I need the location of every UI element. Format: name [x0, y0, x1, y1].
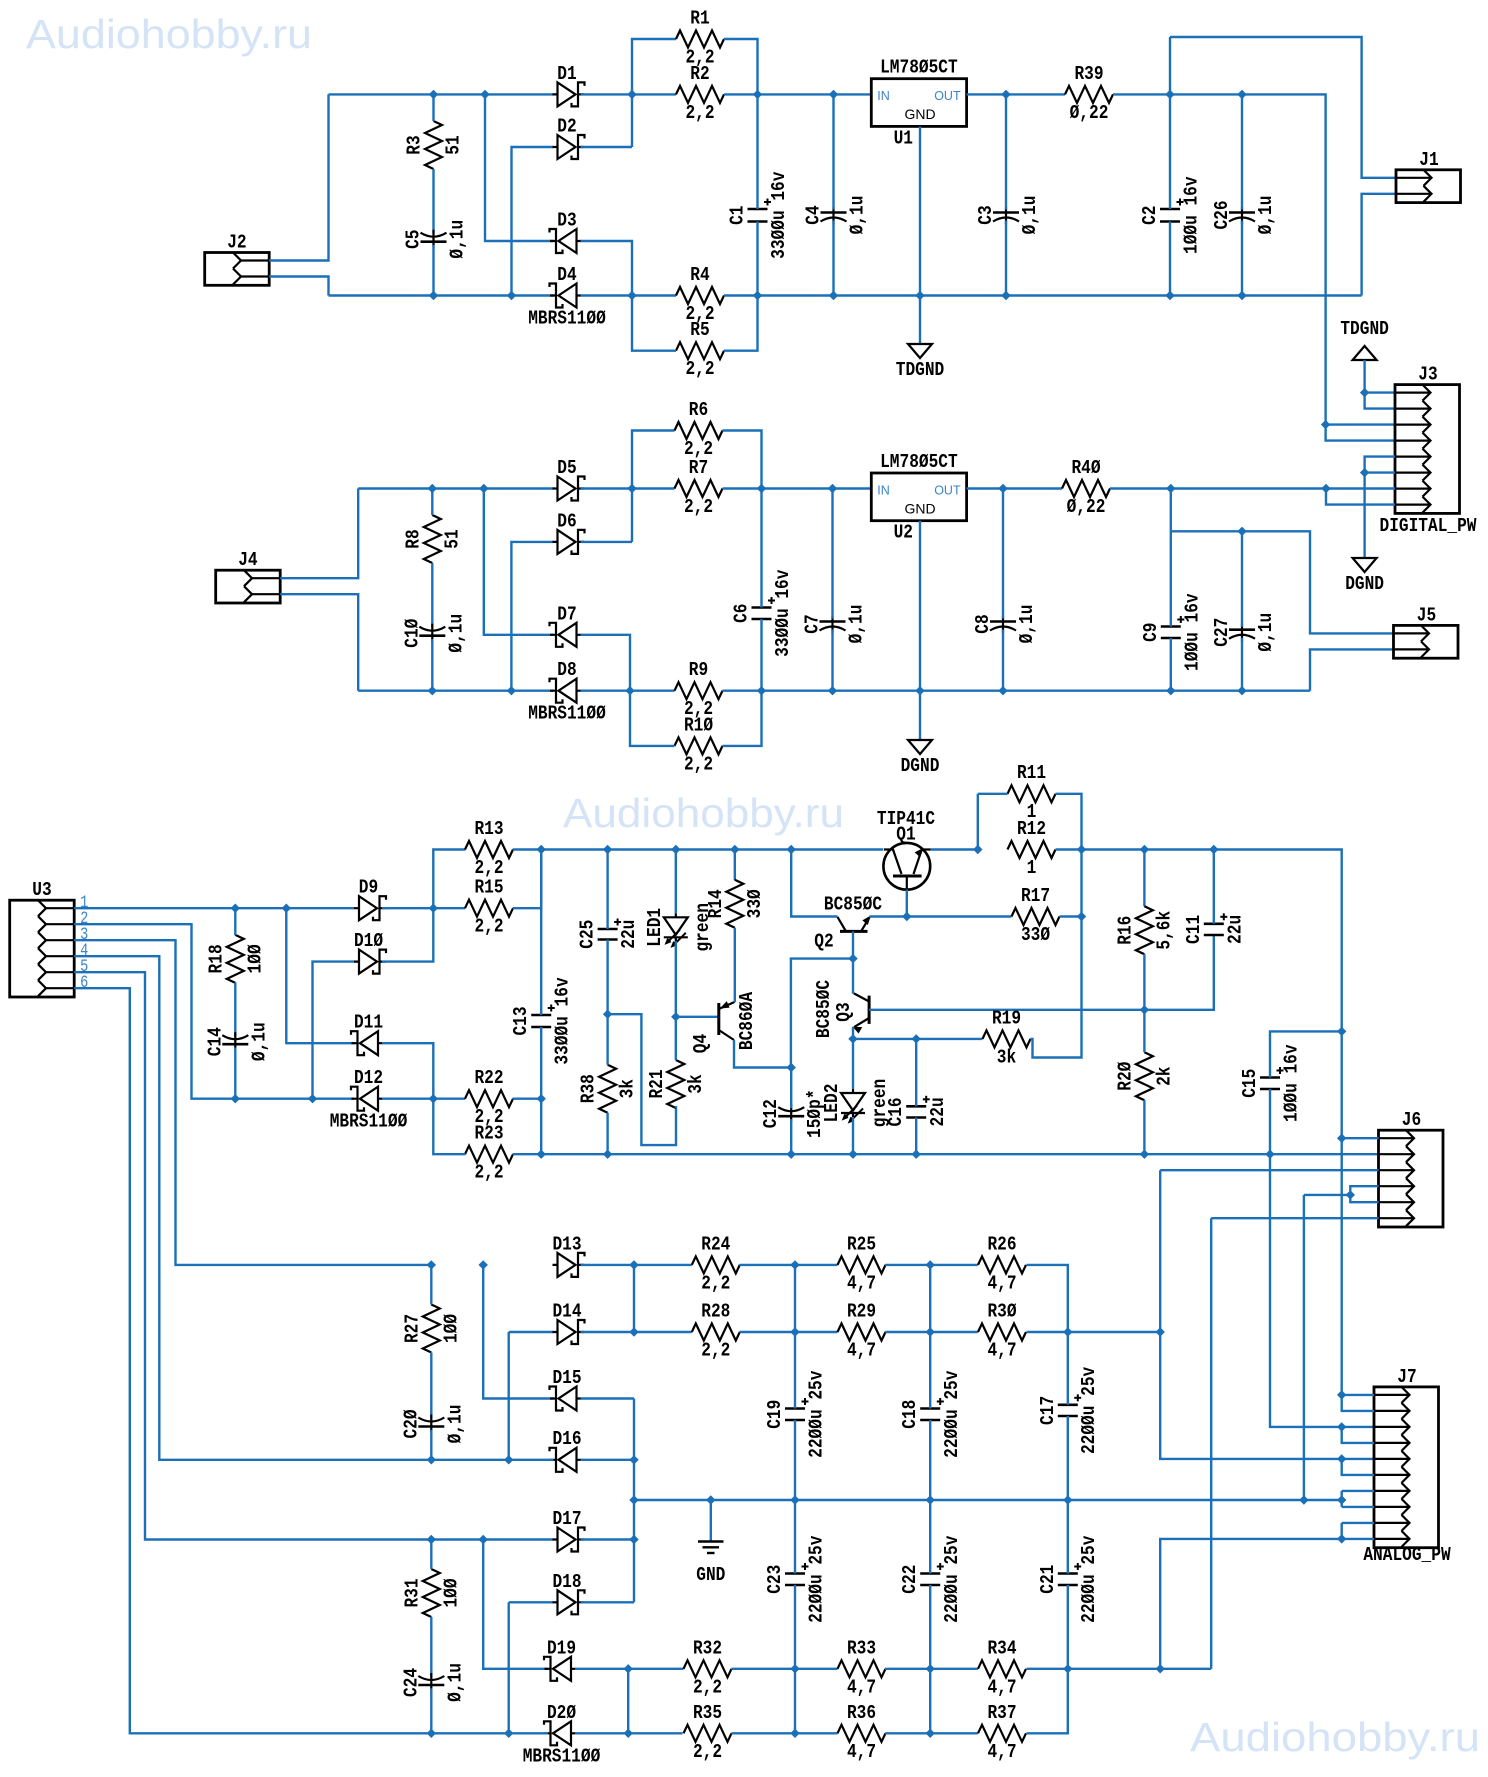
- wire C17 col top: [1067, 1332, 1069, 1405]
- svg-text:D13: D13: [552, 1233, 581, 1255]
- svg-text:Q4: Q4: [690, 1034, 712, 1053]
- resistor R12: [1008, 818, 1056, 879]
- resistor R17: [1012, 885, 1060, 946]
- transistor Q2: [814, 894, 882, 953]
- svg-text:22u: 22u: [1224, 915, 1246, 944]
- svg-text:C11: C11: [1183, 915, 1205, 944]
- svg-text:C24: C24: [400, 1668, 422, 1697]
- node AC3 junction 1: [428, 485, 436, 493]
- transistor Q4: [690, 991, 758, 1053]
- wire U1 GND pin: [919, 126, 921, 295]
- resistor R39: [1065, 63, 1113, 124]
- svg-text:J1: J1: [1419, 149, 1438, 171]
- wire C13 bottom: [540, 1027, 542, 1154]
- node center taps junction 2: [630, 1496, 638, 1504]
- diode D18: [552, 1571, 584, 1615]
- node GND2 rail junction 1: [758, 687, 766, 695]
- node C19 x A2: [791, 1328, 799, 1336]
- wire C13 top: [540, 850, 542, 1016]
- wire Q3 base to C11: [1144, 935, 1213, 1010]
- wire C21 col top: [1067, 1500, 1069, 1574]
- wire C10 bottom: [431, 639, 433, 691]
- diode D19: [544, 1637, 576, 1681]
- svg-text:1ØØu 16v: 1ØØu 16v: [1181, 593, 1203, 671]
- resistor R5: [676, 319, 724, 380]
- wire AC3 to D7: [484, 489, 554, 635]
- svg-text:C27: C27: [1211, 618, 1233, 647]
- node AC2 junction 2: [508, 292, 516, 300]
- capacitor C23: [764, 1535, 828, 1623]
- node AC1 junction 2: [481, 90, 489, 98]
- svg-text:2,2: 2,2: [474, 857, 503, 879]
- wire R1 right to rail: [724, 39, 758, 94]
- svg-text:C21: C21: [1037, 1565, 1059, 1594]
- svg-text:2,2: 2,2: [685, 102, 714, 124]
- svg-text:R31: R31: [401, 1578, 423, 1607]
- node GND taps junction 6: [1338, 1496, 1346, 1504]
- svg-text:4,7: 4,7: [987, 1272, 1016, 1294]
- svg-text:TDGND: TDGND: [896, 359, 945, 381]
- diode D11: [351, 1012, 383, 1056]
- wire J6 pin3 drop: [1160, 1170, 1374, 1459]
- svg-text:D2: D2: [557, 116, 576, 138]
- wire R3 to C5: [432, 169, 434, 234]
- wire GND jog to rail: [1304, 1194, 1350, 1196]
- wire U3 pin6: [74, 988, 431, 1733]
- capacitor C1: [727, 171, 791, 259]
- wire C3 top: [1005, 94, 1007, 209]
- wire R8 to C10: [431, 563, 433, 628]
- diode D9: [354, 877, 386, 921]
- svg-text:DGND: DGND: [901, 755, 940, 777]
- wire C15 top jog: [1270, 1031, 1342, 1077]
- wire AC4 to D6: [511, 542, 553, 691]
- wire Q3 emitter: [852, 1027, 854, 1039]
- svg-text:D1: D1: [557, 63, 576, 85]
- node D13-D14: [630, 1261, 638, 1269]
- resistor R37: [978, 1702, 1026, 1763]
- wire TVCC to J1 pin1: [1170, 37, 1396, 178]
- wire AC3 top rail: [358, 487, 553, 489]
- wire D9 cathode: [382, 907, 465, 909]
- wire D6 cathode to riser: [581, 541, 633, 543]
- wire C25 bottom: [606, 940, 608, 1015]
- wire Q3 base row: [869, 1009, 1144, 1011]
- wire R11 riser: [977, 794, 979, 850]
- node J3 pin1: [1361, 389, 1369, 397]
- svg-text:MBRS11ØØ: MBRS11ØØ: [528, 703, 606, 725]
- voltage regulator U2: [871, 451, 966, 544]
- wire Q3E to LED2: [852, 1039, 854, 1089]
- node AC4 junction 1: [428, 687, 436, 695]
- svg-text:Ø,1u: Ø,1u: [444, 1663, 466, 1702]
- svg-text:R29: R29: [847, 1301, 876, 1323]
- svg-text:R2Ø: R2Ø: [1114, 1062, 1136, 1091]
- capacitor C11: [1183, 913, 1247, 944]
- capacitor C15: [1239, 1044, 1303, 1122]
- wire J3 pin2: [1365, 393, 1395, 409]
- node pin1 taps junction 2: [282, 904, 290, 912]
- node pin1 taps junction 1: [231, 904, 239, 912]
- svg-text:C16: C16: [885, 1097, 907, 1126]
- svg-text:22u: 22u: [927, 1097, 949, 1126]
- wire pin1 to D11: [286, 908, 355, 1043]
- resistor R10: [675, 714, 723, 775]
- transistor Q1: [877, 808, 935, 890]
- node GND taps junction 5: [1300, 1496, 1308, 1504]
- wire J7 pin10: [1342, 1538, 1374, 1540]
- node J3 pin6: [1361, 469, 1369, 477]
- svg-text:22u: 22u: [618, 920, 640, 949]
- wire C1 top: [756, 94, 758, 209]
- svg-text:5,6k: 5,6k: [1153, 911, 1175, 950]
- svg-text:R32: R32: [693, 1637, 722, 1659]
- wire rail right of Q1: [931, 848, 978, 850]
- diode D20: [523, 1702, 601, 1768]
- svg-text:22ØØu 25v: 22ØØu 25v: [806, 1535, 828, 1623]
- svg-text:3k: 3k: [617, 1079, 639, 1098]
- node R12 right: [1078, 846, 1086, 854]
- svg-text:Audiohobby.ru: Audiohobby.ru: [26, 11, 312, 57]
- wire bottom rail mid: [724, 294, 1362, 296]
- wire R28 to R29: [740, 1331, 838, 1333]
- svg-text:C15: C15: [1239, 1069, 1261, 1098]
- wire -VA to J7 9/10: [1160, 1539, 1342, 1669]
- wire R36-R37: [885, 1732, 978, 1734]
- svg-text:C7: C7: [802, 614, 824, 633]
- svg-text:J3: J3: [1418, 364, 1437, 386]
- wire R17 right: [1060, 915, 1082, 917]
- svg-text:2,2: 2,2: [684, 496, 713, 518]
- node B3 taps junction 3: [787, 1150, 795, 1158]
- node GND1 rail junction 4: [1002, 292, 1010, 300]
- svg-text:51: 51: [441, 529, 463, 548]
- svg-text:D4: D4: [557, 264, 576, 286]
- node C23 bottom: [791, 1729, 799, 1737]
- wire J7 pin7: [1342, 1490, 1374, 1492]
- svg-text:LM78Ø5CT: LM78Ø5CT: [880, 451, 958, 473]
- wire R35 to R36: [732, 1732, 838, 1734]
- svg-text:R21: R21: [646, 1069, 668, 1098]
- wire R37 right riser: [1027, 1669, 1068, 1734]
- wire U2 GND pin: [919, 521, 921, 691]
- wire to J3 pin3: [1326, 423, 1395, 425]
- svg-text:D3: D3: [557, 210, 576, 232]
- node +5VD at C8: [999, 485, 1007, 493]
- wire R40 to J3 pin7: [1110, 487, 1395, 489]
- svg-text:R1Ø: R1Ø: [684, 714, 713, 736]
- wire U3 pin5: [74, 972, 431, 1539]
- svg-text:GND: GND: [904, 106, 935, 122]
- node GND taps junction 2: [791, 1496, 799, 1504]
- node C22 x: [926, 1665, 934, 1673]
- wire R14 to Q4 emitter: [734, 928, 736, 1002]
- resistor R32: [684, 1637, 732, 1698]
- svg-text:C25: C25: [577, 920, 599, 949]
- resistor R25: [838, 1233, 886, 1294]
- node D20 taps junction 1: [427, 1729, 435, 1737]
- wire R24 to R25: [740, 1264, 838, 1266]
- node J7 pin1: [1338, 1391, 1346, 1399]
- wire D20 row left: [431, 1732, 548, 1734]
- node C23 x: [791, 1665, 799, 1673]
- resistor R7: [675, 457, 723, 518]
- svg-text:C9: C9: [1140, 622, 1162, 641]
- svg-text:MBRS11ØØ: MBRS11ØØ: [330, 1111, 408, 1133]
- svg-text:D14: D14: [552, 1301, 581, 1323]
- svg-text:R28: R28: [701, 1301, 730, 1323]
- wire C26 top: [1241, 94, 1243, 209]
- wire Q4 base: [676, 1016, 718, 1018]
- wire bottom rail 2 mid: [723, 690, 1311, 692]
- node V1 unreg junction 1: [754, 90, 762, 98]
- capacitor C16: [885, 1096, 949, 1127]
- svg-text:D16: D16: [552, 1428, 581, 1450]
- transistor Q3: [813, 980, 869, 1038]
- svg-text:D11: D11: [354, 1012, 383, 1034]
- wire A1 to D15: [483, 1265, 553, 1399]
- resistor R8: [402, 515, 463, 563]
- svg-text:4,7: 4,7: [987, 1340, 1016, 1362]
- node out rail taps junction 1: [1140, 846, 1148, 854]
- resistor R11: [1008, 762, 1056, 823]
- wire C22 col bottom: [929, 1585, 931, 1733]
- node V1 unreg junction 2: [830, 90, 838, 98]
- wire C9 top rail: [1171, 531, 1394, 633]
- resistor R34: [978, 1637, 1026, 1698]
- node R38 top: [604, 1010, 612, 1018]
- resistor R40: [1062, 457, 1110, 518]
- wire U3 pin4: [74, 956, 431, 1460]
- node B3 taps junction 7: [1266, 1150, 1274, 1158]
- resistor R26: [978, 1233, 1026, 1294]
- svg-text:1ØØ: 1ØØ: [244, 944, 266, 973]
- capacitor C6: [731, 569, 795, 657]
- svg-text:C2: C2: [1139, 205, 1161, 224]
- svg-text:R3: R3: [404, 135, 426, 154]
- wire C26 bottom: [1241, 221, 1243, 296]
- wire C15 col to J7 pin3: [1270, 1154, 1374, 1427]
- svg-text:4,7: 4,7: [847, 1272, 876, 1294]
- svg-text:2,2: 2,2: [474, 916, 503, 938]
- connector U3: [10, 879, 89, 997]
- node GND1 rail junction 1: [754, 292, 762, 300]
- svg-text:IN: IN: [877, 89, 890, 103]
- node R17 right: [1078, 913, 1086, 921]
- svg-text:R12: R12: [1017, 818, 1046, 840]
- wire J2 pin2 to AC2 rail: [269, 277, 328, 296]
- LED LED2: [821, 1079, 891, 1128]
- wire C14 bottom: [234, 1048, 236, 1099]
- svg-text:R18: R18: [205, 944, 227, 973]
- svg-text:Q3: Q3: [833, 1002, 855, 1021]
- wire C16 top stub: [915, 1039, 917, 1106]
- node AC4 junction 2: [507, 687, 515, 695]
- svg-text:U2: U2: [894, 522, 913, 544]
- svg-text:R33: R33: [847, 1637, 876, 1659]
- svg-text:R25: R25: [847, 1233, 876, 1255]
- svg-text:R4Ø: R4Ø: [1071, 457, 1100, 479]
- svg-text:Ø,1u: Ø,1u: [445, 614, 467, 653]
- wire R33-R34: [885, 1668, 978, 1670]
- svg-text:LM78Ø5CT: LM78Ø5CT: [880, 57, 958, 79]
- wire U2 GND to DGND: [919, 691, 921, 740]
- wire B3 rail: [513, 1153, 1379, 1155]
- wire GND2 to J5 pin2: [1310, 649, 1394, 690]
- wire D12 anode to R22: [382, 1097, 465, 1099]
- diode D17: [552, 1508, 584, 1552]
- node A1 taps junction 2: [479, 1261, 487, 1269]
- svg-text:22ØØu 25v: 22ØØu 25v: [1078, 1535, 1100, 1623]
- resistor R33: [838, 1637, 886, 1698]
- wire D7 anode to riser: [581, 635, 631, 691]
- svg-text:2,2: 2,2: [701, 1340, 730, 1362]
- wire TDGND to J3 pin1: [1365, 360, 1395, 393]
- svg-text:R15: R15: [474, 877, 503, 899]
- wire C7 top: [831, 489, 833, 619]
- svg-text:R2: R2: [690, 63, 709, 85]
- node B3 taps junction 4: [849, 1150, 857, 1158]
- node Q3 base-R16: [1140, 1006, 1148, 1014]
- svg-text:D6: D6: [557, 510, 576, 532]
- connector J5: [1394, 604, 1459, 658]
- node D8 anode: [626, 687, 634, 695]
- node out rail taps junction 4: [1338, 1134, 1346, 1142]
- svg-text:2,2: 2,2: [684, 753, 713, 775]
- svg-text:J5: J5: [1417, 604, 1436, 626]
- capacitor C5: [403, 220, 469, 259]
- wire C27 top: [1241, 531, 1243, 626]
- wire J7 pin8: [1342, 1506, 1374, 1508]
- wire C6 bottom: [760, 619, 762, 691]
- wire D14 row left: [509, 1331, 554, 1333]
- node C17 top: [1064, 1328, 1072, 1336]
- svg-text:51: 51: [443, 135, 465, 154]
- node C19 top: [791, 1261, 799, 1269]
- wire C2 top: [1169, 94, 1171, 209]
- wire D17 row: [431, 1538, 553, 1540]
- wire LED1 bottom: [675, 941, 677, 1017]
- resistor R29: [838, 1301, 886, 1362]
- resistor R2: [676, 63, 724, 124]
- svg-text:4,7: 4,7: [847, 1340, 876, 1362]
- wire J6 pin1: [1342, 1137, 1379, 1139]
- wire AC1 top rail: [329, 93, 554, 95]
- wire GND rail: [634, 1499, 1342, 1501]
- wire R5 right riser: [724, 296, 758, 351]
- wire D14 cathode: [581, 1331, 692, 1333]
- voltage regulator U1: [871, 57, 966, 150]
- svg-text:2,2: 2,2: [701, 1272, 730, 1294]
- svg-text:1ØØ: 1ØØ: [440, 1578, 462, 1607]
- svg-text:D2Ø: D2Ø: [547, 1702, 576, 1724]
- node GND1 rail junction 6: [1238, 292, 1246, 300]
- svg-text:C26: C26: [1211, 200, 1233, 229]
- wire rail to Q2 collector row: [791, 850, 837, 917]
- wire J7 pin4 jog: [1342, 1427, 1374, 1443]
- svg-text:C14: C14: [204, 1027, 226, 1056]
- node C18 x A2: [926, 1328, 934, 1336]
- node Q4C-C12: [787, 1064, 795, 1072]
- svg-text:R34: R34: [987, 1637, 1016, 1659]
- svg-text:C8: C8: [972, 614, 994, 633]
- svg-text:22ØØu 25v: 22ØØu 25v: [806, 1370, 828, 1458]
- svg-text:D19: D19: [547, 1637, 576, 1659]
- wire D19-D20 riser: [627, 1669, 629, 1734]
- wire U1 GND to TDGND: [919, 296, 921, 345]
- node D4 anode: [628, 292, 636, 300]
- wire riser D5-D6 to R6: [632, 431, 675, 542]
- svg-text:R5: R5: [690, 319, 709, 341]
- svg-text:2,2: 2,2: [474, 1162, 503, 1184]
- wire D11 anode riser: [382, 1043, 433, 1099]
- svg-text:Ø,1u: Ø,1u: [444, 1405, 466, 1444]
- svg-text:BC85ØC: BC85ØC: [824, 894, 882, 916]
- node D5 cathode: [628, 485, 636, 493]
- wire J7 pin9: [1342, 1522, 1374, 1524]
- svg-text:R26: R26: [987, 1233, 1016, 1255]
- diode D8: [528, 659, 606, 725]
- svg-text:Audiohobby.ru: Audiohobby.ru: [563, 790, 844, 836]
- wire R29-R30: [885, 1331, 978, 1333]
- node AC2 junction 1: [430, 292, 438, 300]
- wire Q2 base jog: [852, 931, 854, 958]
- wire GND1 to J1 pin2: [1362, 194, 1396, 296]
- wire D20 anode: [575, 1732, 683, 1734]
- svg-text:DGND: DGND: [1345, 573, 1384, 595]
- wire C25 top: [606, 850, 608, 930]
- svg-text:OUT: OUT: [934, 89, 961, 103]
- wire C7 bottom: [831, 630, 833, 691]
- svg-text:R27: R27: [401, 1314, 423, 1343]
- svg-text:1: 1: [1027, 857, 1037, 879]
- resistor R27: [401, 1305, 462, 1353]
- svg-text:J4: J4: [238, 549, 257, 571]
- node D20 taps junction 2: [505, 1729, 513, 1737]
- node C27 top: [1238, 527, 1246, 535]
- node GND taps junction 3: [926, 1496, 934, 1504]
- node R22-C13: [537, 1095, 545, 1103]
- capacitor C27: [1211, 613, 1277, 652]
- node rail taps junction 3: [731, 846, 739, 854]
- svg-text:C13: C13: [510, 1006, 532, 1035]
- wire R17 row: [907, 915, 1012, 917]
- node V2 unreg junction 1: [758, 485, 766, 493]
- node GND2 rail junction 2: [829, 687, 837, 695]
- svg-text:R17: R17: [1021, 885, 1050, 907]
- wire D2 cathode to riser: [581, 146, 633, 148]
- svg-text:R24: R24: [701, 1233, 730, 1255]
- wire GND drop: [1303, 1195, 1305, 1500]
- wire R26 right corner: [1027, 1265, 1068, 1332]
- svg-text:2,2: 2,2: [693, 1741, 722, 1763]
- svg-text:C3: C3: [975, 205, 997, 224]
- node Q3E-R19: [849, 1035, 857, 1043]
- svg-text:Ø,1u: Ø,1u: [447, 220, 469, 259]
- wire C24 bottom: [430, 1688, 432, 1733]
- node center taps junction 3: [630, 1536, 638, 1544]
- wire R2 right rail to U1 IN: [724, 93, 871, 95]
- svg-text:C1: C1: [727, 205, 749, 224]
- wire Q2 base to left col: [791, 959, 853, 1068]
- node J7 pin5 jog: [1338, 1455, 1346, 1463]
- connector J4: [216, 549, 281, 603]
- wire D4 anode to R4: [581, 294, 677, 296]
- svg-text:R37: R37: [987, 1702, 1016, 1724]
- wire D15 anode: [581, 1397, 635, 1399]
- resistor R28: [692, 1301, 740, 1362]
- capacitor C19: [764, 1370, 828, 1458]
